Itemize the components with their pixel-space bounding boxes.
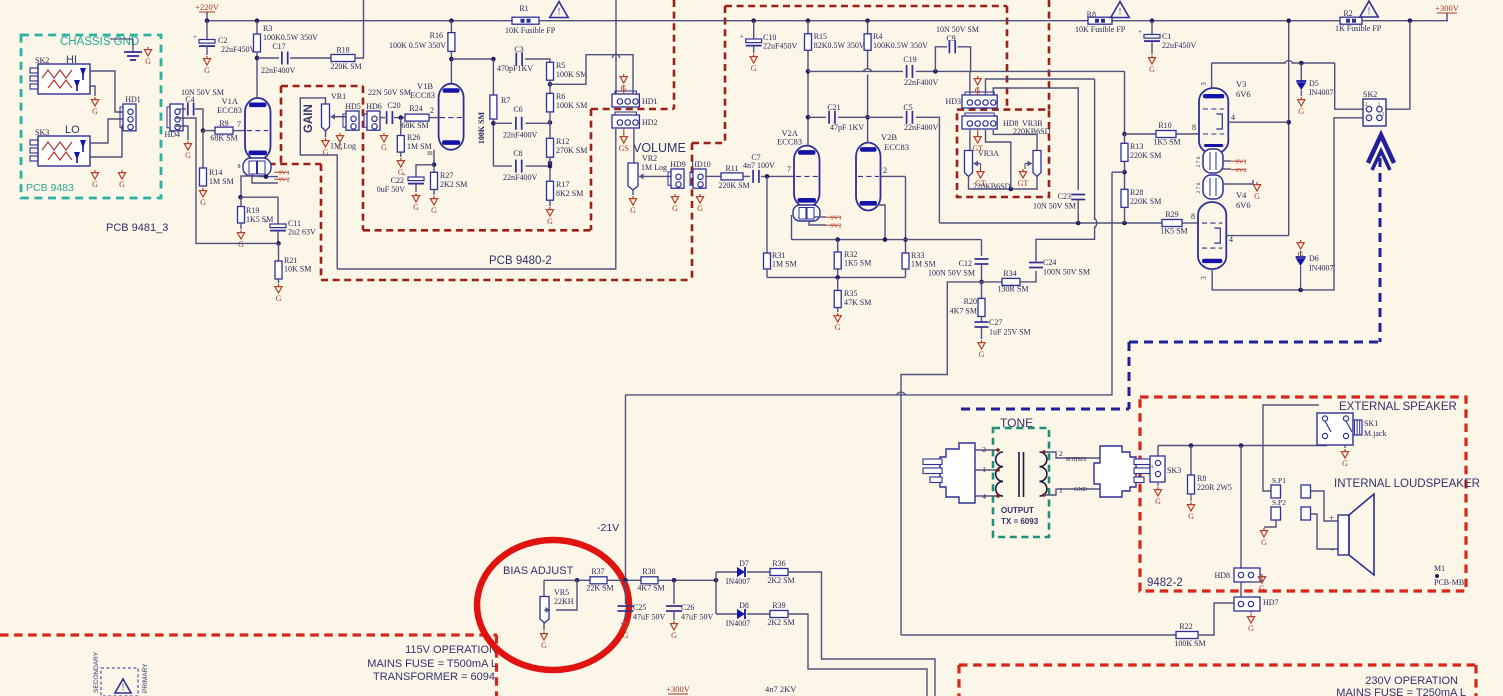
wire bus down to HD8b — [1240, 446, 1242, 569]
wire VR2 wiper to HD9 — [645, 175, 671, 177]
svg-text:10K Fusible FP: 10K Fusible FP — [1075, 25, 1126, 34]
node VR3 bottom — [1009, 187, 1014, 192]
capacitor C17 — [281, 52, 283, 65]
ground G below SK1 — [1344, 445, 1346, 448]
resistor R13 — [1124, 134, 1126, 143]
svg-text:3: 3 — [1200, 82, 1208, 86]
resistor R5 — [547, 62, 554, 80]
svg-text:100K SM: 100K SM — [556, 101, 587, 110]
svg-text:220K SM: 220K SM — [1130, 197, 1161, 206]
wire plate line to SK2 — [1335, 63, 1363, 109]
resistor R7 — [492, 59, 494, 95]
node C26 — [672, 578, 677, 583]
svg-text:M.jack: M.jack — [1364, 429, 1386, 438]
svg-text:G: G — [630, 206, 636, 215]
svg-text:HD4: HD4 — [164, 130, 180, 139]
ground G below SK3 — [94, 170, 96, 173]
svg-text:7: 7 — [237, 120, 241, 129]
svg-text:VR1: VR1 — [331, 92, 346, 101]
wire C23 to V4 line — [1077, 200, 1079, 223]
resistor R24 — [405, 114, 429, 121]
ground GS below HD2 — [623, 129, 625, 134]
hop over V4 line — [1091, 220, 1097, 226]
svg-text:3: 3 — [1200, 276, 1208, 280]
svg-text:G: G — [1248, 624, 1254, 633]
svg-text:1M Log: 1M Log — [641, 163, 667, 172]
svg-text:R2: R2 — [1343, 9, 1352, 18]
connector SK3 speaker — [1150, 456, 1165, 482]
node plate V1A — [255, 56, 260, 61]
PCB 9480-2 dashed outline — [281, 85, 363, 88]
wire V1B cathode — [433, 150, 435, 165]
svg-text:6V6: 6V6 — [1236, 89, 1251, 99]
wire diode split — [715, 572, 717, 614]
svg-text:2 7 8: 2 7 8 — [1196, 182, 1202, 193]
ground G above HD1 — [623, 74, 625, 77]
wire SK3 sleeve to HD1 — [90, 126, 123, 157]
wire R28 to V4 grid line — [1124, 207, 1126, 223]
svg-text:+: + — [1329, 513, 1334, 523]
node cathode V1A — [238, 195, 243, 200]
svg-text:+300V: +300V — [666, 684, 691, 694]
svg-text:SK2: SK2 — [1363, 90, 1377, 99]
svg-text:C26: C26 — [681, 603, 694, 612]
svg-text:1K5 SM: 1K5 SM — [246, 215, 273, 224]
svg-text:~9V1: ~9V1 — [827, 215, 842, 222]
wire transformer primary mid — [975, 469, 997, 471]
svg-text:PCB 9480-2: PCB 9480-2 — [489, 255, 552, 267]
ground G below C2 — [206, 56, 208, 59]
ground G below SK3 — [1157, 482, 1159, 486]
wire HD10 to R11 — [706, 175, 721, 177]
svg-text:8K2 SM: 8K2 SM — [556, 189, 583, 198]
node R15 C21 — [806, 115, 811, 120]
wire node to R34 — [982, 281, 1003, 283]
speaker board 9482-2 dashed box — [1140, 397, 1466, 591]
svg-text:G: G — [751, 64, 757, 73]
resistor R36 — [770, 569, 788, 576]
node R21 — [276, 241, 281, 246]
wire V2B grid right — [881, 175, 906, 177]
potentiometer VR3A — [969, 130, 971, 151]
svg-text:100K0.5W 350V: 100K0.5W 350V — [873, 41, 928, 50]
svg-text:8: 8 — [1192, 123, 1196, 132]
svg-text:100K SM: 100K SM — [477, 111, 486, 144]
tube V1A ECC83 — [245, 98, 271, 160]
speaker cone — [1349, 494, 1374, 575]
svg-text:2 7 8: 2 7 8 — [1196, 156, 1202, 167]
wire grid down to R33 — [905, 176, 907, 253]
TONE dashed box — [993, 428, 1049, 537]
svg-text:~9V2: ~9V2 — [275, 177, 290, 184]
svg-text:R6: R6 — [556, 92, 565, 101]
svg-text:HD8: HD8 — [1214, 571, 1230, 580]
transformer primary winding — [996, 452, 1003, 467]
grid dashed line V1A — [247, 130, 268, 132]
svg-text:ECC83: ECC83 — [777, 137, 802, 147]
svg-text:IN4007: IN4007 — [1309, 264, 1333, 273]
svg-text:!: ! — [1119, 7, 1122, 17]
screen supply riser — [1288, 21, 1290, 236]
resistor R32 — [837, 240, 839, 252]
svg-text:S.P1: S.P1 — [1272, 476, 1286, 485]
wire secondary top — [1044, 452, 1100, 458]
svg-text:2K2 SM: 2K2 SM — [767, 618, 794, 627]
ground G below HD6 — [383, 133, 385, 136]
svg-text:10N 50V SM: 10N 50V SM — [181, 88, 224, 97]
svg-text:C27: C27 — [989, 318, 1002, 327]
svg-text:D8: D8 — [739, 601, 749, 610]
svg-text:10N 50V SM: 10N 50V SM — [1033, 202, 1076, 211]
svg-text:R8: R8 — [1197, 474, 1206, 483]
svg-text:HD1: HD1 — [125, 95, 141, 104]
svg-text:GAIN: GAIN — [303, 104, 315, 133]
tube V4 6V6 — [1198, 202, 1226, 269]
capacitor C5 — [906, 111, 908, 124]
ground G below VR5 — [543, 631, 545, 634]
wire R24 to V1B grid — [429, 117, 440, 119]
terminal SP2 — [1271, 507, 1281, 520]
svg-text:6V6: 6V6 — [1236, 200, 1251, 210]
wire -21V down to bias row — [625, 395, 627, 580]
svg-text:R35: R35 — [844, 289, 857, 298]
terminal speaker minus — [1301, 507, 1311, 520]
wire V3 plate line — [1212, 62, 1335, 64]
svg-text:100K SM: 100K SM — [1174, 639, 1205, 648]
wire R34 to C24 — [1020, 271, 1036, 282]
resistor R22 — [1176, 632, 1198, 639]
svg-text:R7: R7 — [501, 96, 510, 105]
node D6 — [1298, 288, 1303, 293]
ground G below R14 — [202, 188, 204, 191]
BIAS ADJUST red circle — [477, 540, 629, 670]
svg-text:GS: GS — [619, 144, 629, 153]
ground G below R8b — [1190, 494, 1192, 501]
capacitor C7 — [752, 170, 754, 183]
svg-text:R4: R4 — [873, 32, 882, 41]
svg-text:D5: D5 — [1309, 79, 1319, 88]
grid dashed V2B — [858, 175, 879, 177]
connector HD8 pots — [962, 116, 997, 129]
wire C22 to ground — [415, 184, 417, 192]
svg-text:R10: R10 — [1158, 121, 1171, 130]
svg-text:G: G — [1188, 512, 1194, 521]
svg-text:R12: R12 — [556, 137, 569, 146]
svg-text:4: 4 — [1231, 113, 1235, 122]
svg-text:4n7 2KV: 4n7 2KV — [765, 684, 797, 694]
svg-text:!: ! — [122, 682, 125, 692]
resistor R3 — [256, 21, 258, 34]
svg-text:ECC83: ECC83 — [884, 142, 909, 152]
capacitor C10 — [753, 21, 755, 40]
wire V4 grid line — [939, 222, 1162, 224]
svg-text:G: G — [431, 206, 437, 215]
wire C17 to R18 — [290, 57, 331, 59]
svg-text:22N 50V SM: 22N 50V SM — [368, 88, 411, 97]
svg-text:HD10: HD10 — [691, 160, 711, 169]
node phase splitter out — [979, 280, 984, 285]
wire C2 to ground — [206, 46, 208, 55]
svg-text:R29: R29 — [1165, 210, 1178, 219]
wire cathode bus to C12 — [981, 240, 983, 256]
svg-text:TONE: TONE — [1000, 416, 1033, 430]
node hop at -21V crossing — [896, 392, 906, 395]
wire to C6 — [493, 122, 512, 124]
wire R3 to V1A plate — [256, 52, 258, 98]
svg-text:R18: R18 — [336, 46, 349, 55]
svg-text:R3: R3 — [263, 24, 272, 33]
resistor R35 — [837, 277, 839, 290]
ground G below R21 — [278, 279, 280, 283]
ground G below SK2 — [94, 97, 96, 100]
wire V2A coupling to V3 — [971, 70, 1125, 72]
svg-text:CHASSIS GND: CHASSIS GND — [60, 36, 139, 48]
wire to speaker minus — [1311, 514, 1339, 549]
resistor R28 — [1121, 189, 1128, 207]
fuse R8 — [1088, 17, 1112, 24]
speaker bus wire — [1158, 445, 1327, 447]
wire R36 staircase — [788, 572, 935, 696]
wire C21 to V2B plate node — [838, 116, 868, 118]
capacitor C3 — [515, 53, 517, 66]
wire HD8 pin3 to VR3 bottom — [986, 130, 1011, 189]
wire R14 tap — [202, 131, 204, 168]
svg-text:+: + — [264, 218, 268, 226]
ground G below C26 — [673, 621, 675, 624]
svg-text:1M Log: 1M Log — [330, 142, 356, 151]
svg-text:C23: C23 — [1058, 192, 1071, 201]
connector HD1 input — [123, 104, 136, 131]
wire VR1 feed to HD2 — [337, 129, 616, 269]
capacitor C26 — [666, 605, 682, 607]
svg-text:PCB 9481_3: PCB 9481_3 — [106, 222, 168, 234]
wire C1 ground — [1151, 41, 1153, 54]
svg-text:R13: R13 — [1130, 142, 1143, 151]
svg-text:C25: C25 — [633, 603, 646, 612]
svg-text:HD2: HD2 — [642, 118, 658, 127]
wire VR5 wiper loop — [556, 580, 577, 610]
wire C3 to R5 — [525, 59, 550, 62]
svg-text:+: + — [193, 33, 197, 41]
heater stub 9V1 — [259, 176, 278, 178]
connector HD9 — [671, 169, 684, 188]
potentiometer VR5 — [540, 597, 549, 624]
svg-text:47pF 1KV: 47pF 1KV — [830, 123, 864, 132]
svg-text:7: 7 — [787, 165, 791, 174]
svg-text:220R 2W5: 220R 2W5 — [1197, 483, 1232, 492]
mains transformer dashed box — [101, 668, 138, 696]
potentiometer VR2 — [628, 163, 638, 190]
wire R20 to C27 — [981, 317, 983, 322]
wire to speaker plus — [1311, 491, 1339, 521]
potentiometer VR1 — [322, 104, 330, 131]
grid dashed V1B — [440, 117, 462, 119]
wire R16 to V1B plate — [450, 51, 452, 83]
node R6 R12 — [548, 120, 553, 125]
svg-text:G: G — [238, 240, 244, 249]
fuse R1 — [512, 17, 539, 24]
svg-text:C6: C6 — [513, 105, 522, 114]
svg-text:V4: V4 — [1236, 190, 1247, 200]
resistor R19 — [238, 207, 245, 224]
svg-text:R11: R11 — [725, 164, 738, 173]
svg-text:470pF1KV: 470pF1KV — [497, 64, 533, 73]
wire C24 up to hop corner — [1036, 79, 1095, 263]
wire R7 to C8 — [493, 165, 512, 167]
resistor R8b — [1190, 446, 1192, 476]
capacitor C23 — [1071, 194, 1085, 196]
dot primary pins — [996, 448, 1000, 452]
svg-text:1M SM: 1M SM — [772, 260, 797, 269]
svg-text:1M SM: 1M SM — [911, 260, 936, 269]
svg-text:8: 8 — [238, 164, 241, 170]
svg-text:BIAS ADJUST: BIAS ADJUST — [503, 565, 574, 577]
svg-text:G: G — [1261, 538, 1267, 547]
svg-text:220K SM: 220K SM — [718, 181, 749, 190]
svg-text:4: 4 — [1229, 235, 1233, 244]
wire screen V3 — [1228, 121, 1288, 123]
warning triangle R8 — [1111, 2, 1129, 18]
ground GT below VR3B wiper — [1024, 164, 1026, 170]
heater box V3 V4 — [1203, 149, 1223, 173]
svg-text:R34: R34 — [1003, 269, 1016, 278]
svg-text:HD9: HD9 — [670, 160, 686, 169]
VR1 bottom stub — [325, 131, 327, 137]
connector HD5 — [346, 111, 359, 130]
svg-text:G: G — [145, 57, 151, 66]
svg-text:270K SM: 270K SM — [556, 146, 587, 155]
node R5 R6 — [548, 82, 553, 87]
svg-text:10K SM: 10K SM — [284, 265, 311, 274]
node R7 top — [491, 57, 496, 62]
svg-text:22nF400V: 22nF400V — [904, 78, 938, 87]
node R10 R13 — [1122, 132, 1127, 137]
svg-text:R28: R28 — [1130, 188, 1143, 197]
VR3B wiper arrow — [1025, 163, 1032, 165]
svg-text:230V OPERATION: 230V OPERATION — [1365, 675, 1458, 687]
wire plate to C17 — [257, 57, 279, 59]
connector HD6 — [367, 111, 380, 130]
svg-text:C19: C19 — [903, 55, 916, 64]
node screen V3 — [1286, 120, 1291, 125]
svg-text:G: G — [381, 143, 387, 152]
ground G below R35 — [837, 308, 839, 312]
svg-text:22uF450V: 22uF450V — [221, 45, 255, 54]
wire HD3 pin3 to C23 line — [986, 79, 1095, 95]
wire D5 ground — [1300, 90, 1302, 96]
svg-text:TX = 6093: TX = 6093 — [1001, 517, 1039, 526]
speaker driver — [1338, 515, 1349, 555]
svg-text:~9V1: ~9V1 — [275, 170, 290, 177]
wire D8 to R39 — [747, 613, 770, 615]
resistor R4 — [867, 21, 869, 34]
wire 300V to rail — [1446, 13, 1448, 21]
svg-text:R22: R22 — [1179, 622, 1192, 631]
svg-text:22nF400V: 22nF400V — [503, 173, 537, 182]
capacitor C20 — [386, 111, 388, 124]
tube V2A ECC83 — [794, 146, 820, 208]
ground G below HD4 — [187, 141, 189, 144]
svg-text:C21: C21 — [827, 103, 840, 112]
svg-text:G: G — [697, 204, 703, 213]
connector HD4 — [170, 104, 183, 131]
wire HD3 pin4 right — [993, 88, 1078, 190]
svg-text:G: G — [337, 143, 343, 152]
wire VR1 top loop — [300, 98, 337, 269]
node cathode V1B — [432, 163, 437, 168]
svg-text:G: G — [1342, 459, 1348, 468]
node R4 C5 — [865, 115, 870, 120]
resistor R15 — [807, 21, 809, 34]
svg-text:SK3: SK3 — [1167, 466, 1181, 475]
svg-text:22nF400V: 22nF400V — [261, 66, 295, 75]
wire bias stub — [1112, 171, 1125, 173]
warning triangle mains — [115, 679, 131, 693]
wire SK3 to bus — [1157, 446, 1159, 457]
node bias feed — [1122, 170, 1127, 175]
svg-text:D6: D6 — [1309, 254, 1319, 263]
node C10 — [751, 18, 756, 23]
ground G below R17 — [549, 200, 551, 206]
capacitor C19 — [906, 65, 908, 78]
wire R39 staircase — [788, 614, 927, 696]
svg-text:1K5 SM: 1K5 SM — [1153, 138, 1180, 147]
wire HD2 to VR2 — [633, 129, 635, 163]
resistor R6 — [547, 93, 554, 112]
svg-text:3: 3 — [1382, 112, 1385, 118]
svg-text:G: G — [623, 631, 629, 640]
wire C19 to C9 loop — [916, 70, 971, 72]
node R31 top — [765, 174, 770, 179]
svg-text:PCB 9483: PCB 9483 — [26, 182, 74, 194]
VR5 wiper arrow — [544, 609, 550, 611]
svg-text:~9V2: ~9V2 — [827, 223, 842, 230]
svg-text:2u2 63V: 2u2 63V — [288, 228, 316, 237]
svg-text:1K5 SM: 1K5 SM — [844, 259, 871, 268]
svg-text:2K2 SM: 2K2 SM — [440, 180, 467, 189]
svg-text:1K Fusible FP: 1K Fusible FP — [1335, 24, 1382, 33]
node grid V1A — [201, 128, 206, 133]
svg-text:100N 50V SM: 100N 50V SM — [928, 269, 975, 278]
wire -21V riser — [626, 172, 1113, 395]
capacitor C12 — [975, 258, 989, 260]
socket SK2 output — [1363, 99, 1386, 126]
svg-text:G: G — [204, 66, 210, 75]
svg-text:G: G — [276, 294, 282, 303]
wire C5 to V4 line — [916, 117, 939, 223]
capacitor C4 — [187, 103, 189, 116]
wire screen V4 — [1226, 235, 1288, 237]
PCB 9483 chassis-gnd dashed box — [21, 35, 161, 198]
svg-text:10K Fusible FP: 10K Fusible FP — [505, 26, 556, 35]
capacitor C24 — [1029, 262, 1043, 264]
svg-text:G: G — [1259, 584, 1265, 593]
wire C21 line — [808, 116, 826, 118]
svg-text:47K SM: 47K SM — [844, 298, 871, 307]
node C1 — [1150, 18, 1155, 23]
node C9 left — [933, 69, 938, 74]
svg-text:IN4007: IN4007 — [726, 619, 750, 628]
VR2 bottom stub ground — [632, 190, 634, 195]
svg-text:1uF 25V SM: 1uF 25V SM — [989, 328, 1031, 337]
node R8b — [1189, 443, 1194, 448]
diode D7 — [737, 567, 745, 577]
jack SK3 LO — [38, 136, 90, 166]
heater stub 9V2 V2A — [809, 221, 826, 225]
svg-text:D7: D7 — [739, 559, 749, 568]
svg-text:-: - — [1331, 544, 1334, 554]
svg-text:22K SM: 22K SM — [586, 584, 613, 593]
